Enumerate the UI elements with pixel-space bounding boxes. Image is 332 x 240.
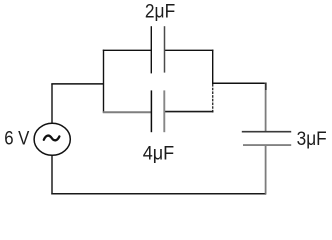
svg-text:6 V: 6 V bbox=[4, 129, 29, 150]
svg-text:4μF: 4μF bbox=[143, 144, 175, 165]
svg-text:2μF: 2μF bbox=[145, 2, 175, 23]
svg-text:3μF: 3μF bbox=[297, 129, 327, 150]
